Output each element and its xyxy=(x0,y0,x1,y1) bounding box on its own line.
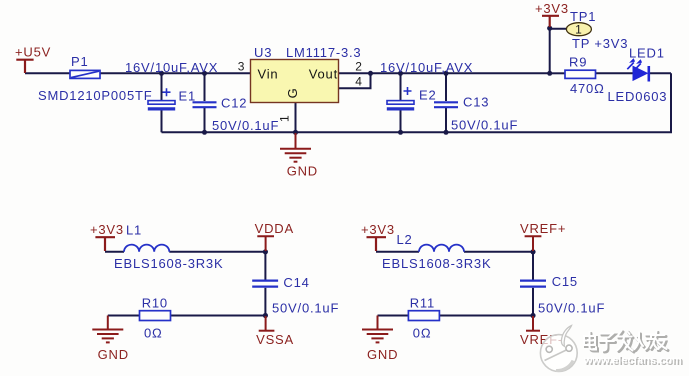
svg-text:C13: C13 xyxy=(463,95,489,110)
svg-text:L2: L2 xyxy=(397,232,413,247)
svg-text:0Ω: 0Ω xyxy=(413,325,432,340)
svg-text:GND: GND xyxy=(367,347,398,362)
svg-text:EBLS1608-3R3K: EBLS1608-3R3K xyxy=(114,256,223,271)
svg-text:1: 1 xyxy=(278,115,292,122)
svg-text:G: G xyxy=(285,88,300,99)
svg-text:U3: U3 xyxy=(254,45,272,60)
svg-text:50V/0.1uF: 50V/0.1uF xyxy=(272,300,339,315)
svg-text:LED0603: LED0603 xyxy=(608,89,668,104)
svg-text:+3V3: +3V3 xyxy=(535,1,569,16)
svg-text:TP1: TP1 xyxy=(570,9,596,24)
svg-text:C14: C14 xyxy=(283,275,309,290)
svg-text:VSSA: VSSA xyxy=(256,332,294,347)
svg-text:P1: P1 xyxy=(71,54,89,69)
svg-text:Vin: Vin xyxy=(258,67,279,82)
svg-text:L1: L1 xyxy=(126,223,142,238)
svg-text:3: 3 xyxy=(238,59,245,73)
svg-text:+3V3: +3V3 xyxy=(361,222,395,237)
svg-text:Vout: Vout xyxy=(309,67,338,82)
svg-text:SMD1210P005TF: SMD1210P005TF xyxy=(38,88,152,103)
svg-text:4: 4 xyxy=(355,75,362,89)
svg-text:R10: R10 xyxy=(142,295,168,310)
svg-text:TP +3V3: TP +3V3 xyxy=(572,36,628,51)
svg-text:EBLS1608-3R3K: EBLS1608-3R3K xyxy=(382,256,491,271)
svg-text:16V/10uF,AVX: 16V/10uF,AVX xyxy=(380,60,473,75)
svg-text:50V/0.1uF: 50V/0.1uF xyxy=(212,118,279,133)
svg-text:+3V3: +3V3 xyxy=(90,222,124,237)
svg-text:0Ω: 0Ω xyxy=(144,325,163,340)
svg-text:VREF+: VREF+ xyxy=(520,221,566,236)
svg-text:R9: R9 xyxy=(569,55,587,70)
svg-text:GND: GND xyxy=(98,347,129,362)
svg-text:C12: C12 xyxy=(221,96,247,111)
svg-text:50V/0.1uF: 50V/0.1uF xyxy=(451,118,518,133)
svg-text:1: 1 xyxy=(575,23,582,37)
svg-text:2: 2 xyxy=(355,59,362,73)
svg-text:VDDA: VDDA xyxy=(255,221,294,236)
svg-text:C15: C15 xyxy=(552,274,578,289)
svg-text:LED1: LED1 xyxy=(629,46,665,61)
svg-text:www.elecfans.com: www.elecfans.com xyxy=(583,355,682,367)
svg-text:LM1117-3.3: LM1117-3.3 xyxy=(286,45,361,60)
svg-text:50V/0.1uF: 50V/0.1uF xyxy=(538,300,605,315)
svg-text:16V/10uF,AVX: 16V/10uF,AVX xyxy=(125,60,218,75)
svg-text:R11: R11 xyxy=(410,295,435,310)
svg-text:GND: GND xyxy=(287,164,318,179)
svg-text:470Ω: 470Ω xyxy=(570,81,605,96)
svg-text:E2: E2 xyxy=(419,88,437,103)
svg-text:+U5V: +U5V xyxy=(15,45,51,60)
